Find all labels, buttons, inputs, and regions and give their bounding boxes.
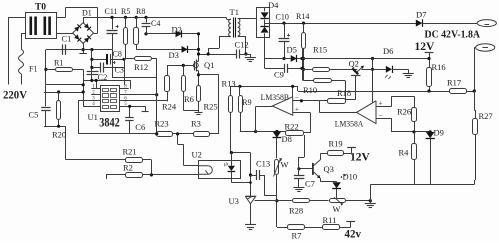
svg-text:T0: T0: [35, 3, 46, 13]
svg-text:R10: R10: [303, 85, 317, 95]
svg-text:R14: R14: [296, 12, 309, 21]
svg-text:R5: R5: [121, 7, 130, 16]
svg-text:R12: R12: [134, 62, 148, 72]
svg-text:D6: D6: [383, 46, 393, 56]
svg-text:R26: R26: [397, 107, 411, 117]
svg-text:D9: D9: [434, 128, 444, 138]
svg-text:R13: R13: [222, 79, 236, 89]
svg-text:D1: D1: [82, 9, 92, 18]
svg-text:R27: R27: [479, 111, 493, 121]
svg-text:42v: 42v: [345, 227, 362, 241]
svg-text:R6: R6: [184, 94, 194, 104]
svg-text:C11: C11: [105, 7, 118, 16]
svg-text:R16: R16: [432, 62, 446, 72]
svg-text:Q1: Q1: [204, 60, 214, 70]
svg-text:R17: R17: [447, 78, 461, 88]
svg-text:R19: R19: [329, 139, 343, 149]
svg-text:D10: D10: [343, 172, 358, 182]
svg-text:C6: C6: [135, 122, 145, 132]
svg-text:C1: C1: [62, 34, 72, 44]
svg-text:C13: C13: [256, 159, 270, 169]
svg-text:R8: R8: [136, 7, 145, 16]
svg-text:220V: 220V: [3, 88, 27, 102]
svg-text:R15: R15: [313, 45, 327, 55]
svg-text:12V: 12V: [350, 152, 371, 164]
svg-text:Q3: Q3: [324, 164, 334, 174]
svg-text:R28: R28: [289, 206, 303, 216]
svg-text:R20: R20: [52, 130, 66, 140]
svg-text:R3: R3: [191, 119, 201, 129]
svg-text:D5: D5: [287, 45, 297, 55]
svg-text:LM358A: LM358A: [335, 118, 364, 128]
svg-text:C3: C3: [115, 66, 124, 75]
svg-text:U2: U2: [192, 150, 202, 160]
svg-text:C8: C8: [113, 50, 122, 59]
svg-text:3842: 3842: [99, 115, 120, 129]
svg-text:R24: R24: [162, 102, 177, 112]
svg-text:D7: D7: [416, 10, 426, 20]
svg-text:C9: C9: [274, 70, 284, 80]
svg-text:LM358B: LM358B: [261, 92, 290, 102]
svg-text:D8: D8: [282, 134, 292, 144]
svg-text:Q2: Q2: [349, 59, 359, 69]
svg-text:F1: F1: [29, 65, 37, 74]
svg-text:R18: R18: [337, 88, 351, 98]
svg-text:D4: D4: [268, 0, 279, 10]
svg-text:C4: C4: [151, 19, 160, 28]
svg-text:D2: D2: [172, 25, 182, 35]
svg-text:R7: R7: [292, 231, 302, 241]
svg-text:12V: 12V: [415, 41, 436, 53]
svg-text:R1: R1: [54, 59, 63, 68]
svg-text:R9: R9: [242, 98, 251, 107]
svg-text:D3: D3: [169, 50, 179, 60]
svg-text:W: W: [281, 160, 289, 170]
svg-text:R11: R11: [323, 215, 337, 225]
svg-text:C5: C5: [29, 110, 39, 120]
svg-text:C7: C7: [305, 179, 315, 189]
svg-text:R4: R4: [399, 148, 410, 158]
svg-text:U3: U3: [229, 196, 239, 206]
svg-text:DC 42V-1.8A: DC 42V-1.8A: [425, 30, 481, 41]
svg-text:R2: R2: [123, 163, 133, 173]
svg-text:T1: T1: [230, 7, 239, 17]
svg-text:R22: R22: [285, 122, 299, 132]
svg-text:W: W: [333, 204, 341, 214]
svg-text:C10: C10: [276, 13, 289, 22]
svg-text:C12: C12: [235, 40, 249, 50]
svg-text:U1: U1: [88, 112, 98, 122]
svg-text:R25: R25: [204, 102, 218, 112]
svg-text:R21: R21: [123, 147, 137, 157]
